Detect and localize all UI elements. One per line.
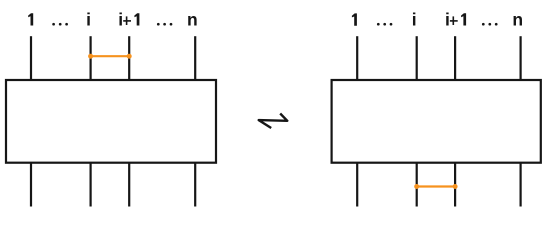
svg-text:n: n [512,10,523,30]
strand i bottom (left) [89,163,91,207]
svg-text:i: i [86,10,91,30]
strand n bottom (left) [194,163,196,207]
svg-text:i: i [412,10,417,30]
strand i top (left) [89,36,91,80]
strand i+1 bottom (right) [454,163,456,207]
svg-text:n: n [187,10,198,30]
label 1 (left) [28,13,33,25]
ellipsis dots right-a [377,23,392,26]
ellipsis dots left-b [157,23,172,26]
ellipsis dots right-b [482,23,498,26]
plus sign of i+1 (left) [123,16,131,25]
svg-text:i: i [445,10,450,30]
right diagram labels [412,10,523,30]
strand 1 bottom (right) [356,163,358,207]
strand 1 bottom (left) [30,163,32,207]
orange chord top (left figure) [88,54,132,59]
svg-text:i: i [118,10,123,30]
strand i+1 top (left) [128,36,130,80]
ellipsis dots left-a [52,23,68,26]
digit 1 of i+1 (right) [461,13,466,25]
strand 1 top (left) [30,36,32,80]
equivalence zigzag symbol [259,114,288,129]
strand i bottom (right) [416,163,418,207]
label 1 (right) [352,13,357,25]
plus sign of i+1 (right) [450,16,458,25]
right box [332,80,541,163]
strand i+1 bottom (left) [128,163,130,207]
strand i top (right) [416,36,418,80]
orange chord bottom (right figure) [414,184,457,189]
digit 1 of i+1 (left) [134,13,139,25]
strand n top (left) [194,36,196,80]
strand 1 top (right) [356,36,358,80]
left box [6,80,216,163]
strand i+1 top (right) [454,36,456,80]
strand n bottom (right) [519,163,521,207]
left diagram labels [86,10,198,30]
strand n top (right) [519,36,521,80]
